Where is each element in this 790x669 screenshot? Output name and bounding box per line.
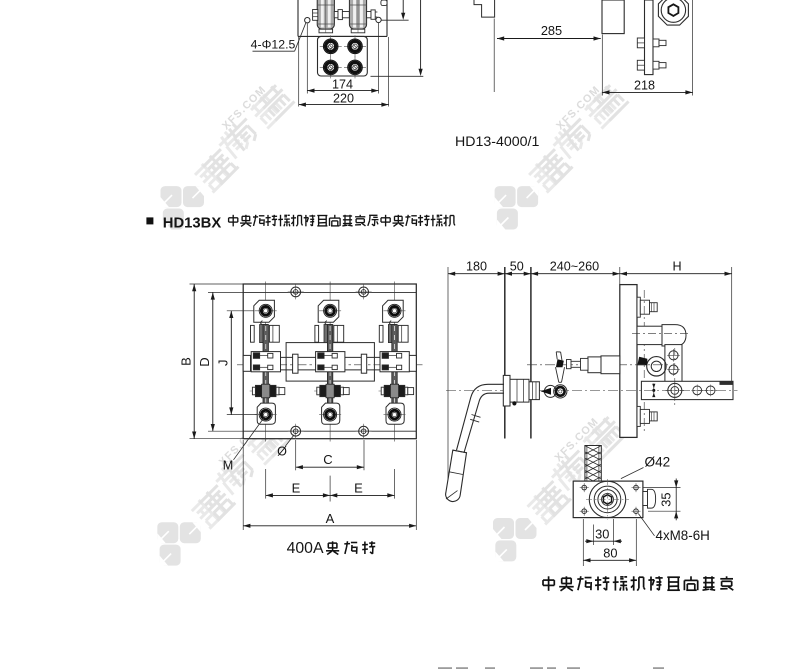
svg-text:50: 50 [510, 260, 524, 274]
beam rounded end [662, 325, 686, 346]
terminal bolt top-left [320, 35, 342, 57]
mounting hole top-left [288, 284, 304, 299]
svg-text:XFS.COM: XFS.COM [554, 84, 603, 133]
handle flange disc [503, 375, 510, 406]
svg-text:XFS.COM: XFS.COM [220, 84, 269, 133]
right view dim extensions [448, 267, 732, 490]
dim J [215, 311, 233, 415]
svg-text:Ø: Ø [277, 445, 287, 459]
label O-slash [277, 435, 294, 459]
cut-off vertical dimension large [419, 0, 423, 76]
top view left mounting plate [298, 0, 387, 36]
svg-text:B: B [178, 357, 193, 366]
rear mounting panel [620, 285, 637, 438]
arm small pin [652, 384, 655, 398]
horizontal centerline main view [237, 364, 423, 366]
dim E extensions [266, 469, 395, 502]
dim 220 extension lines [299, 37, 389, 107]
extension line bolt plate bottom [371, 75, 424, 77]
top view insulator roller right [349, 0, 366, 33]
svg-text:285: 285 [541, 23, 562, 38]
mounting hole bottom-left [288, 424, 304, 439]
hex bolt head [668, 4, 678, 16]
shaft collar left [243, 355, 250, 371]
panel top bolt stack [637, 297, 657, 317]
opening plate hex [603, 495, 611, 504]
drive cylinder large [601, 356, 620, 374]
watermark unit B [495, 84, 629, 230]
handle collar [529, 382, 539, 400]
plate hole bottom-right [632, 507, 641, 516]
hub rear circle group [544, 385, 567, 398]
arm end notch [720, 381, 734, 385]
plate hole bottom-left [580, 507, 589, 516]
dim B [178, 284, 196, 439]
top view insulator roller left [317, 0, 334, 33]
switch pole 1 [250, 282, 285, 442]
caption 400A below [287, 540, 376, 557]
svg-text:4-Φ12.5: 4-Φ12.5 [251, 38, 296, 52]
dim 30 [585, 526, 622, 543]
shaft collar right [409, 355, 416, 371]
plate hole top-right [632, 483, 641, 492]
svg-text:C: C [323, 452, 332, 467]
dim E left [266, 480, 330, 497]
dim A extensions [243, 440, 416, 530]
enclosure inner fold lines [243, 292, 416, 431]
octagonal flange with hex bolt [658, 0, 688, 25]
terminal bolt bottom-right [344, 56, 366, 78]
section bullet [146, 217, 153, 224]
section header chinese [229, 215, 455, 227]
switch pole 3 [379, 282, 414, 442]
svg-text:HD13BX: HD13BX [163, 216, 222, 232]
dim D [197, 292, 215, 431]
beam centerline [632, 333, 690, 335]
hub rear collar [531, 386, 536, 398]
operating shaft bars [243, 357, 416, 370]
main shaft centerline right view [527, 364, 668, 366]
arm pivot hole [666, 380, 685, 401]
svg-text:400A: 400A [287, 540, 324, 557]
top view hinge tabs left [313, 10, 318, 21]
vertical bracket [665, 345, 682, 383]
top view terminal bolt plate [318, 36, 368, 76]
watermark unit A [161, 84, 295, 230]
panel bolt centerline [643, 290, 645, 433]
label M [223, 418, 264, 473]
watermark unit D [493, 416, 627, 562]
handle hub body [510, 379, 529, 402]
handle tube [457, 384, 505, 454]
bracket bolt lower [667, 363, 680, 376]
plate side protrusion [643, 489, 656, 508]
dim 174 [307, 77, 378, 92]
shaft support plate left [293, 354, 298, 373]
opening plate center cross [586, 479, 629, 520]
dim 220 [299, 91, 389, 106]
lower crank arm [641, 381, 733, 399]
svg-text:174: 174 [332, 77, 353, 91]
dim A [243, 511, 416, 528]
dim D extensions [208, 292, 243, 431]
arm centerline horizontal [446, 390, 738, 392]
switch pole 2 [314, 282, 349, 442]
opening plate circles [589, 481, 625, 517]
terminal bolt top-right [344, 35, 366, 57]
svg-text:30: 30 [595, 526, 609, 541]
dim 218 extensions [602, 0, 692, 96]
dim C extensions [296, 440, 364, 470]
dim 174 extension lines [307, 23, 378, 94]
svg-text:35: 35 [658, 492, 673, 506]
label 4-phi12.5 leader [253, 23, 306, 52]
svg-text:4xM8-6H: 4xM8-6H [656, 528, 710, 543]
bracket centerline vertical [674, 348, 676, 406]
dim E right [330, 480, 394, 497]
tie rod [567, 358, 589, 370]
dim 180 [448, 260, 505, 276]
caption opening plate drawing [543, 576, 733, 591]
bar bolt lower [637, 60, 666, 70]
bracket bolt upper [667, 349, 680, 362]
bar bolt upper [637, 38, 666, 48]
opening plate shaft square [585, 446, 601, 486]
crank tapered arm [556, 367, 565, 382]
svg-text:180: 180 [466, 260, 487, 274]
shaft support plate right [361, 354, 366, 373]
dim 285 [497, 23, 601, 40]
arm hole 3 [705, 385, 717, 397]
grease nipple [512, 401, 516, 405]
upper beam [637, 326, 662, 344]
opening plate [573, 481, 643, 517]
dim C [296, 452, 364, 469]
hole marker circle left [305, 18, 310, 23]
label O42 [621, 455, 670, 479]
leader line from right hole [381, 19, 408, 21]
crank link dark [637, 357, 647, 366]
label 4-phi12.5 text [251, 38, 296, 52]
dim B extensions [190, 284, 244, 439]
cut-off vertical dimension small [401, 0, 405, 20]
plate hole top-left [580, 483, 589, 492]
top view right side bolt [367, 10, 378, 19]
dim 35 [658, 479, 678, 521]
svg-text:E: E [354, 480, 363, 495]
caption HD13-4000/1 [455, 134, 540, 150]
dim 240-260 [531, 260, 620, 276]
dim H [620, 260, 732, 276]
main outer enclosure [243, 284, 416, 439]
svg-text:H: H [672, 260, 681, 274]
central mechanism box [286, 343, 374, 382]
extension below L-bracket [493, 19, 495, 93]
section header HD13BX [163, 216, 222, 232]
bell crank dark wedge [556, 352, 564, 367]
side mounting plate [602, 0, 624, 34]
panel plane line left [504, 267, 506, 439]
label 4xM8-6H [638, 514, 710, 543]
svg-text:218: 218 [634, 79, 655, 93]
watermark unit C [157, 420, 291, 566]
shaft boss circle [647, 357, 666, 376]
mounting hole top-right [356, 284, 372, 299]
svg-text:J: J [215, 360, 230, 367]
dim J extensions [227, 311, 257, 415]
svg-text:M: M [223, 458, 234, 472]
svg-text:Ø42: Ø42 [645, 455, 671, 470]
top right L-bracket [474, 0, 495, 17]
hub rear arrow dark [541, 388, 552, 395]
dim 50 [505, 260, 531, 276]
dim 218 [602, 79, 692, 95]
vertical support bar [645, 0, 654, 75]
dim 80 extensions [583, 519, 636, 566]
dim 35 extensions [643, 488, 681, 512]
handle tube joint [470, 415, 480, 423]
hole marker circle right [376, 17, 381, 22]
dim 80 [583, 546, 636, 563]
svg-text:240~260: 240~260 [550, 260, 599, 274]
drive cylinder small [588, 357, 601, 373]
dim 30 extensions [594, 519, 614, 545]
arm hole 2 [691, 385, 703, 397]
svg-text:80: 80 [603, 546, 617, 561]
top view center bolt between rollers [334, 10, 349, 20]
svg-text:E: E [292, 480, 301, 495]
panel bottom bolt stack [637, 406, 657, 426]
handle grip [446, 450, 467, 501]
terminal bolt bottom-left [320, 56, 342, 78]
cut-off next section text at page bottom [438, 667, 664, 669]
svg-text:A: A [326, 511, 335, 526]
svg-text:D: D [197, 357, 212, 366]
panel plane line right [530, 267, 532, 439]
svg-text:220: 220 [333, 91, 354, 105]
mounting hole bottom-right [356, 424, 372, 439]
svg-text:HD13-4000/1: HD13-4000/1 [455, 134, 540, 150]
